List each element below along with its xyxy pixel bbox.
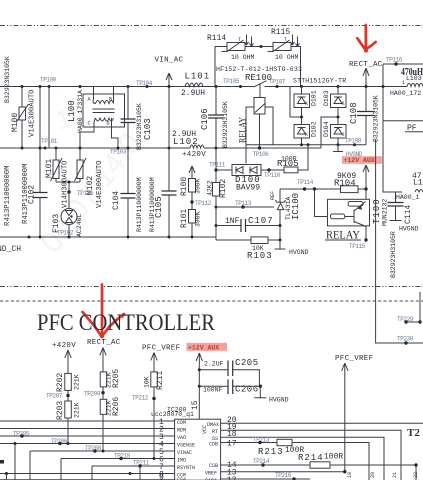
svg-text:HA00_1: HA00_1 bbox=[396, 194, 420, 201]
ground HVGND under D104 bbox=[333, 145, 343, 152]
wire bridge bottom HVGND node bbox=[246, 144, 366, 146]
svg-text:R205: R205 bbox=[112, 369, 121, 388]
capacitor C104 bbox=[127, 148, 129, 237]
node TP113 wire bbox=[215, 206, 218, 209]
svg-text:T: T bbox=[238, 37, 241, 43]
svg-text:C105: C105 bbox=[154, 196, 164, 218]
svg-text:TP207: TP207 bbox=[46, 393, 63, 400]
svg-text:K: K bbox=[342, 101, 345, 107]
resistor R205 bbox=[100, 372, 107, 387]
svg-text:R206: R206 bbox=[112, 397, 121, 416]
wire relay coil bottom to TP106 node bbox=[259, 114, 261, 148]
resistor R202 bbox=[65, 373, 72, 390]
svg-text:TP114: TP114 bbox=[297, 179, 314, 186]
svg-text:2.2UF: 2.2UF bbox=[204, 361, 224, 368]
svg-text:HA00_17331A: HA00_17331A bbox=[77, 90, 84, 133]
svg-text:B: B bbox=[109, 97, 112, 103]
svg-text:A: A bbox=[88, 97, 91, 103]
PFC output module box bbox=[383, 64, 402, 192]
diode D101 bbox=[300, 85, 303, 88]
svg-text:TP100: TP100 bbox=[40, 77, 57, 84]
svg-text:PFC CONTROLLER: PFC CONTROLLER bbox=[37, 310, 216, 335]
svg-text:390K: 390K bbox=[195, 178, 202, 194]
svg-text:TP108: TP108 bbox=[345, 138, 362, 145]
svg-text:R115: R115 bbox=[271, 28, 290, 37]
svg-text:TP101: TP101 bbox=[41, 138, 58, 145]
svg-text:T: T bbox=[284, 37, 287, 43]
varistor M100 bbox=[21, 85, 24, 88]
diode D104 bbox=[337, 108, 339, 125]
svg-text:9: 9 bbox=[159, 474, 164, 480]
svg-text:F103: F103 bbox=[52, 214, 61, 233]
transistor Q100 (PNP) bbox=[345, 202, 366, 227]
svg-text:ucc28070_q1: ucc28070_q1 bbox=[151, 411, 194, 418]
svg-text:L101: L101 bbox=[185, 72, 211, 82]
resistor R203 bbox=[65, 401, 72, 418]
varistor M102 bbox=[79, 148, 81, 182]
wire long vertical to T200 block bbox=[376, 140, 423, 343]
svg-text:HVGND: HVGND bbox=[269, 397, 289, 404]
svg-text:TP115: TP115 bbox=[349, 243, 366, 250]
svg-text:V14H300AUTO: V14H300AUTO bbox=[62, 161, 70, 208]
svg-text:100NF: 100NF bbox=[203, 387, 223, 394]
svg-text:C205: C205 bbox=[235, 358, 259, 368]
resistor R213 bbox=[277, 439, 292, 445]
svg-text:K: K bbox=[305, 132, 308, 138]
resistor R101 bbox=[189, 210, 196, 224]
sheet border dash-dot top bbox=[0, 25, 423, 27]
svg-text:TP105: TP105 bbox=[223, 78, 240, 85]
resistor R100 bbox=[189, 179, 196, 193]
resistor R206 bbox=[100, 399, 107, 414]
svg-text:2.9UH: 2.9UH bbox=[181, 89, 205, 98]
diode D100 BAV99 bbox=[214, 168, 217, 171]
svg-text:C104: C104 bbox=[112, 191, 121, 210]
relay switch arm bbox=[254, 81, 267, 87]
svg-text:VAO: VAO bbox=[177, 435, 186, 441]
capacitor C102 bbox=[39, 85, 42, 88]
edge mark bottom left bbox=[0, 460, 4, 464]
wire PFC out bbox=[383, 120, 423, 122]
wire stair x15 bbox=[14, 444, 16, 480]
wire AC top bus right of relay switch bbox=[265, 86, 408, 88]
node TP126 bbox=[67, 190, 70, 193]
svg-text:R214: R214 bbox=[298, 453, 324, 463]
svg-text:42K2: 42K2 bbox=[207, 180, 214, 196]
svg-text:20: 20 bbox=[370, 472, 376, 478]
svg-text:+12V AUX: +12V AUX bbox=[344, 157, 375, 164]
net +12V_AUX (bottom, highlighted) bbox=[187, 343, 228, 351]
section border dash-dot middle bbox=[0, 286, 423, 288]
svg-text:VSENSE: VSENSE bbox=[177, 443, 195, 449]
wire neutral bus y148 bbox=[0, 147, 321, 149]
svg-text:R413P11000000M: R413P11000000M bbox=[136, 177, 143, 232]
svg-text:RDM: RDM bbox=[177, 428, 186, 434]
svg-text:R101: R101 bbox=[180, 209, 189, 228]
svg-text:L1: L1 bbox=[413, 179, 423, 188]
capacitor C114 bbox=[395, 192, 397, 202]
svg-text:ND_CH: ND_CH bbox=[0, 245, 21, 254]
svg-text:RECT_AC: RECT_AC bbox=[349, 61, 383, 69]
svg-text:HA00_172: HA00_172 bbox=[390, 90, 421, 97]
svg-text:IMO: IMO bbox=[177, 458, 186, 464]
svg-text:TP112: TP112 bbox=[195, 200, 212, 207]
svg-text:K: K bbox=[305, 101, 308, 107]
wire vertical under TP100 bbox=[48, 87, 50, 149]
svg-text:10 OHM: 10 OHM bbox=[231, 54, 255, 61]
diode D103 bbox=[337, 85, 340, 88]
svg-text:22: 22 bbox=[413, 472, 419, 478]
svg-text:C: C bbox=[88, 121, 91, 127]
svg-text:D: D bbox=[107, 121, 110, 127]
net +12V_AUX (top) bbox=[342, 156, 382, 164]
svg-text:C103: C103 bbox=[143, 118, 153, 140]
svg-text:VINAC: VINAC bbox=[177, 450, 192, 456]
fuse F103 bbox=[61, 209, 77, 225]
svg-text:D102: D102 bbox=[311, 121, 318, 137]
svg-text:T2: T2 bbox=[407, 427, 420, 439]
svg-text:TP104: TP104 bbox=[136, 80, 153, 87]
diode D102 bbox=[301, 108, 303, 125]
svg-text:21: 21 bbox=[392, 472, 398, 478]
svg-text:STTH1512GY-TR: STTH1512GY-TR bbox=[293, 78, 346, 85]
svg-text:R103: R103 bbox=[247, 251, 273, 261]
svg-text:221K: 221K bbox=[74, 374, 81, 390]
svg-text:C114: C114 bbox=[404, 205, 413, 224]
svg-text:+420V: +420V bbox=[182, 151, 206, 159]
svg-text:RSYNTH: RSYNTH bbox=[177, 465, 195, 471]
capacitor C107 bbox=[215, 224, 218, 227]
resistor R102 bbox=[213, 183, 220, 197]
svg-text:C108: C108 bbox=[349, 102, 359, 124]
watermark bbox=[35, 98, 148, 260]
svg-text:C107: C107 bbox=[248, 216, 274, 226]
capacitor C106 bbox=[215, 85, 218, 88]
svg-text:V14E300AUTO: V14E300AUTO bbox=[29, 90, 37, 137]
svg-text:RE100: RE100 bbox=[245, 73, 272, 83]
svg-text:HF152-T-012-1HSTO-633: HF152-T-012-1HSTO-633 bbox=[216, 66, 302, 73]
svg-text:C102: C102 bbox=[28, 185, 37, 204]
svg-text:BAV99: BAV99 bbox=[236, 184, 260, 193]
svg-text:B32923H3105K: B32923H3105K bbox=[136, 103, 143, 150]
svg-text:HVGND: HVGND bbox=[399, 226, 419, 233]
resistor pullup (inside driver) bbox=[348, 202, 363, 207]
resistor R214 bbox=[310, 462, 330, 468]
section border dashed bbox=[0, 300, 423, 302]
wire main AC top bus bbox=[0, 86, 254, 88]
svg-text:T100: T100 bbox=[372, 198, 382, 224]
svg-text:VREF: VREF bbox=[205, 471, 217, 477]
svg-text:M101: M101 bbox=[45, 159, 54, 178]
svg-text:TP209: TP209 bbox=[84, 391, 101, 398]
svg-text:B32923H3105R: B32923H3105R bbox=[390, 231, 397, 278]
varistor M101 bbox=[55, 147, 58, 150]
svg-text:R211: R211 bbox=[156, 371, 165, 390]
shunt ref IC100 TL431A bbox=[279, 189, 281, 202]
svg-text:IC100: IC100 bbox=[291, 193, 301, 220]
red annotation arrow top bbox=[364, 25, 367, 51]
svg-text:D103: D103 bbox=[323, 90, 330, 106]
svg-text:DMAX: DMAX bbox=[207, 422, 219, 428]
svg-text:D104: D104 bbox=[323, 121, 330, 137]
svg-text:B32923H3105K: B32923H3105K bbox=[222, 101, 229, 148]
svg-text:PFC_VREF: PFC_VREF bbox=[335, 355, 373, 363]
svg-text:CDB: CDB bbox=[209, 442, 218, 448]
wire +12V into driver bbox=[365, 189, 367, 240]
wire AC2 riser bbox=[321, 117, 338, 148]
svg-text:REF: REF bbox=[270, 191, 276, 200]
svg-text:C206: C206 bbox=[235, 385, 259, 395]
svg-text:M100: M100 bbox=[11, 113, 20, 132]
svg-text:TP116: TP116 bbox=[386, 57, 403, 64]
svg-text:TP126: TP126 bbox=[77, 190, 94, 197]
svg-text:221K: 221K bbox=[74, 402, 81, 418]
svg-text:TP111: TP111 bbox=[209, 162, 226, 169]
svg-text:AC240L: AC240L bbox=[76, 213, 83, 237]
svg-text:MUN2132: MUN2132 bbox=[382, 199, 389, 226]
svg-text:TP216: TP216 bbox=[275, 472, 292, 479]
resistor R211 bbox=[151, 372, 158, 387]
relay RE100 housing bbox=[246, 107, 273, 163]
capacitor C206 bbox=[198, 385, 201, 388]
svg-text:B32923N3105K: B32923N3105K bbox=[4, 56, 11, 103]
red annotation arrow bottom bbox=[101, 285, 104, 336]
svg-text:RELAY: RELAY bbox=[239, 117, 249, 143]
relay RE100 coil bbox=[259, 84, 261, 98]
svg-text:VIN_AC: VIN_AC bbox=[155, 57, 184, 65]
svg-text:10K: 10K bbox=[144, 376, 151, 388]
svg-text:TP106: TP106 bbox=[253, 151, 270, 158]
capacitor C103 bbox=[127, 85, 130, 88]
resistor R103 bbox=[251, 237, 268, 244]
svg-text:+12V_AUX: +12V_AUX bbox=[188, 345, 219, 352]
svg-text:PFC_VREF: PFC_VREF bbox=[142, 345, 180, 353]
svg-text:100R: 100R bbox=[324, 453, 343, 462]
svg-text:R203: R203 bbox=[56, 401, 65, 420]
svg-text:R202: R202 bbox=[56, 373, 65, 392]
svg-text:TP110: TP110 bbox=[264, 172, 281, 179]
svg-text:C106: C106 bbox=[200, 108, 210, 130]
svg-text:HVGND: HVGND bbox=[289, 249, 309, 256]
svg-text:390K: 390K bbox=[195, 211, 202, 227]
svg-text:L103: L103 bbox=[406, 75, 422, 82]
svg-text:R102: R102 bbox=[219, 179, 228, 198]
svg-text:RECT_AC: RECT_AC bbox=[87, 339, 121, 347]
svg-text:R413P11000000M: R413P11000000M bbox=[4, 166, 12, 226]
capacitor C105 bbox=[168, 148, 170, 237]
svg-text:L100: L100 bbox=[67, 100, 77, 122]
svg-text:D101: D101 bbox=[311, 90, 318, 106]
svg-text:R213: R213 bbox=[258, 447, 284, 457]
svg-text:TP107: TP107 bbox=[269, 79, 286, 86]
transformer L100 bbox=[79, 85, 82, 88]
svg-text:1NF: 1NF bbox=[225, 217, 240, 226]
capacitor C205 bbox=[198, 368, 201, 371]
wire AC1 to bridge mid bbox=[290, 87, 302, 118]
svg-text:B32923N3105K: B32923N3105K bbox=[373, 95, 380, 142]
resistor base (inside driver) bbox=[331, 214, 345, 219]
svg-text:R100: R100 bbox=[180, 177, 189, 196]
svg-text:COM: COM bbox=[177, 420, 186, 426]
svg-text:+420V: +420V bbox=[52, 342, 76, 350]
svg-text:19: 19 bbox=[347, 472, 353, 478]
svg-text:10 OHM: 10 OHM bbox=[275, 54, 299, 61]
svg-text:TP212: TP212 bbox=[132, 395, 149, 402]
svg-text:TP214: TP214 bbox=[253, 458, 270, 465]
wire M101-M102 bottoms bbox=[56, 182, 80, 209]
svg-text:17: 17 bbox=[227, 440, 237, 449]
svg-text:R114: R114 bbox=[207, 34, 226, 43]
node TP112 bbox=[190, 200, 193, 203]
wire bottom bus y237 bbox=[0, 207, 280, 240]
svg-text:CSB: CSB bbox=[209, 463, 218, 469]
svg-text:RT: RT bbox=[212, 429, 218, 435]
svg-text:1: 1 bbox=[402, 80, 405, 86]
svg-text:V14E300AUTO: V14E300AUTO bbox=[96, 161, 104, 208]
svg-text:TP103: TP103 bbox=[110, 149, 127, 156]
svg-text:15: 15 bbox=[191, 400, 200, 410]
ground HVGND at C206 bbox=[259, 385, 262, 388]
relay driver box bbox=[315, 189, 328, 217]
ground HVGND at R103 bbox=[275, 240, 286, 249]
